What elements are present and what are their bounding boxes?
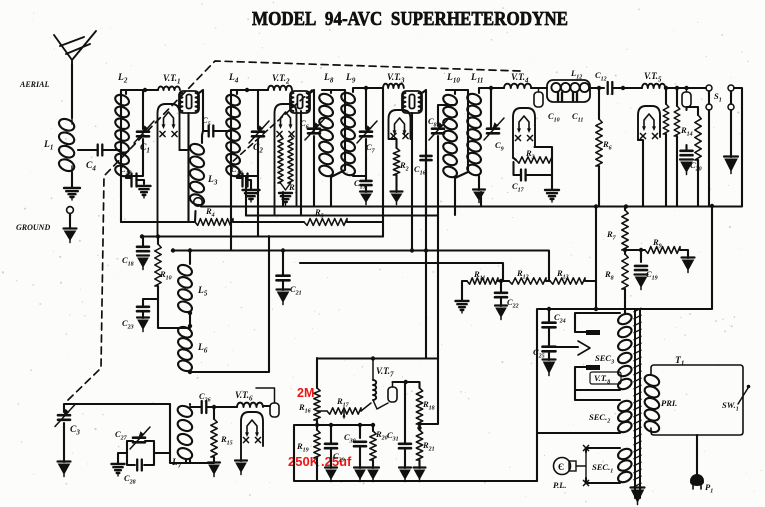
coil L6 — [176, 325, 193, 373]
label V.T.6 — [235, 390, 253, 403]
svg-text:C1: C1 — [140, 143, 150, 155]
svg-text:S1: S1 — [714, 91, 722, 104]
ground R2 — [391, 192, 403, 205]
label L5 — [197, 286, 208, 298]
resistor R8 — [622, 254, 628, 289]
coil L1 — [57, 117, 76, 174]
wire L9 top — [353, 88, 383, 129]
wire VT6 — [263, 405, 270, 407]
ground C14 — [243, 190, 260, 202]
resistor R1 — [278, 136, 293, 190]
resistor R12 — [509, 278, 546, 284]
rectifier VT8 cathode — [578, 341, 590, 355]
wire C30 — [359, 447, 361, 468]
coil L2 — [114, 93, 131, 178]
capacitor C30 — [354, 442, 366, 446]
svg-text:R11: R11 — [473, 269, 485, 282]
label C19 — [646, 269, 658, 282]
resistor R19 — [314, 430, 320, 458]
label C27 — [115, 429, 128, 442]
ground terminal — [67, 207, 74, 214]
label C14 — [231, 164, 243, 177]
capacitor C17 — [521, 170, 526, 181]
label C16 — [414, 164, 426, 177]
variable capacitor C3 — [55, 405, 75, 427]
node audio — [329, 356, 422, 427]
node L9 grid — [364, 86, 368, 90]
capacitor C15 — [361, 181, 372, 185]
wire C13 — [126, 176, 144, 184]
svg-text:L7: L7 — [171, 458, 182, 470]
ground C21 — [277, 290, 290, 305]
label C22 — [507, 297, 519, 310]
svg-text:L10: L10 — [446, 73, 460, 85]
coil L5 — [176, 263, 193, 314]
grid coil VT1 — [158, 87, 180, 90]
capacitor C12 — [608, 82, 613, 94]
svg-text:P.L.: P.L. — [553, 480, 567, 490]
svg-text:C14: C14 — [231, 164, 243, 177]
svg-text:AERIAL: AERIAL — [19, 80, 49, 89]
wire C8 — [438, 105, 455, 126]
wire VT7 grid — [373, 358, 388, 409]
capacitor C16 — [421, 156, 432, 160]
ground under L1 — [64, 188, 80, 200]
bus wire audio top — [317, 357, 438, 359]
switch S1 contacts — [706, 85, 734, 110]
wire antenna to L1 — [71, 64, 73, 118]
svg-text:C17: C17 — [512, 181, 525, 194]
svg-text:L9: L9 — [345, 73, 356, 85]
wire C15 — [353, 139, 366, 192]
variable capacitor C8 — [429, 118, 449, 140]
svg-text:C3: C3 — [70, 425, 80, 437]
wire L5 — [189, 251, 191, 327]
capacitor C31 — [399, 444, 411, 448]
svg-text:R8: R8 — [604, 269, 614, 282]
bus wire D — [300, 263, 503, 281]
svg-text:SEC.1: SEC.1 — [592, 462, 613, 475]
label V.T.1 — [163, 73, 181, 86]
wire L12 to C12 — [531, 87, 604, 89]
tube VT3 top — [402, 91, 422, 113]
label C8 — [428, 116, 437, 129]
label C17 — [512, 181, 525, 194]
label SEC3 — [595, 353, 614, 366]
wire R14 bottom — [697, 160, 699, 206]
wire R3 loop — [514, 147, 553, 190]
capacitor C11 — [573, 93, 577, 102]
tube VT2 top — [290, 91, 310, 113]
ground C25 — [543, 360, 556, 376]
wire R17 — [317, 403, 371, 418]
wire L11 bottom — [478, 176, 480, 190]
svg-text:R16: R16 — [298, 402, 311, 415]
svg-text:C12: C12 — [595, 70, 607, 83]
label L12 — [570, 68, 582, 81]
wire R10 — [158, 236, 180, 328]
svg-text:SEC.2: SEC.2 — [589, 412, 610, 425]
capacitor C29 — [325, 444, 337, 448]
wire C18 — [142, 236, 144, 246]
label R15 — [220, 434, 233, 447]
node C12 out — [621, 86, 689, 90]
label R9 — [652, 237, 662, 250]
label V.T.8 — [590, 372, 621, 386]
node L5 bot — [188, 311, 192, 315]
winding SEC3 — [616, 312, 633, 391]
wire C3 — [64, 404, 170, 462]
wire osc link — [170, 404, 186, 463]
label C11 — [572, 111, 583, 124]
wire VT2 plate down — [301, 90, 314, 215]
label L7 — [171, 458, 182, 470]
wire C24 — [548, 309, 550, 345]
bus wire A R4 R5 — [121, 221, 383, 223]
resistor R16 — [314, 388, 320, 420]
rectifier VT8 plates — [575, 313, 620, 390]
resistor R9 — [645, 247, 680, 254]
label R8 — [604, 269, 614, 282]
variable capacitor C6 — [305, 118, 325, 140]
label R20 — [375, 429, 388, 442]
wire audio bottom — [294, 425, 537, 481]
antenna — [54, 31, 96, 68]
svg-text:L11: L11 — [470, 73, 483, 85]
tube VT6 bell — [241, 412, 263, 461]
svg-text:L12: L12 — [570, 68, 582, 81]
svg-text:R4: R4 — [205, 206, 215, 219]
label V.T.7 — [376, 366, 394, 379]
wire C27 C28 loop — [118, 441, 170, 465]
svg-text:V.T.5: V.T.5 — [644, 71, 662, 84]
wire L8 — [322, 90, 345, 206]
ground C19 — [635, 275, 648, 290]
label C23 — [122, 318, 134, 331]
label L1 — [43, 140, 53, 152]
wire R16 — [316, 358, 318, 430]
svg-text:V.T.4: V.T.4 — [511, 72, 529, 85]
svg-text:R5: R5 — [314, 207, 324, 220]
resistor R3 — [516, 157, 552, 163]
node L6 — [188, 324, 192, 374]
svg-text:V.T.3: V.T.3 — [387, 72, 405, 85]
ground C20 — [680, 160, 693, 175]
wire R14 — [687, 107, 699, 170]
grid coil VT2 — [268, 86, 292, 90]
wire R18 — [418, 424, 420, 430]
resistor R15 — [211, 419, 217, 457]
label L3 — [207, 175, 218, 187]
ground R21 — [414, 468, 426, 482]
label C7 — [366, 142, 376, 155]
svg-text:2M: 2M — [297, 386, 314, 400]
label C29 — [333, 451, 345, 464]
label V.T.4 — [511, 72, 529, 85]
bus wire A2 — [246, 214, 438, 216]
svg-text:C7: C7 — [366, 142, 376, 155]
resistor R2 — [393, 148, 399, 175]
label R1 — [288, 182, 298, 195]
label R5 — [314, 207, 324, 220]
wire R6 — [598, 88, 600, 206]
label R14 — [680, 125, 693, 138]
bus wire E — [195, 207, 742, 223]
wire R21 — [418, 460, 420, 468]
svg-text:PRI.: PRI. — [661, 398, 677, 408]
ground S1 arrow — [724, 157, 738, 174]
ground R15 — [208, 463, 220, 477]
wire L11 top — [479, 88, 504, 128]
capacitor C19 — [635, 266, 647, 270]
coil L9 — [340, 91, 357, 177]
label L4 — [228, 73, 239, 85]
svg-text:C4: C4 — [86, 161, 96, 173]
node stage1 grid — [143, 88, 147, 92]
ground R3 C17 — [545, 190, 559, 202]
wire L10 — [446, 90, 468, 215]
variable capacitor C9 — [484, 118, 504, 140]
wire C31 — [404, 382, 406, 468]
label L8 — [323, 73, 334, 85]
tube VT1 top — [179, 91, 199, 113]
wire R8 down — [624, 289, 626, 313]
label C1 — [140, 143, 150, 155]
svg-text:C11: C11 — [572, 111, 583, 124]
svg-text:T1: T1 — [675, 356, 684, 368]
label L11 — [470, 73, 483, 85]
wire VT1 plate down — [180, 90, 204, 222]
svg-text:Є: Є — [558, 462, 564, 472]
capacitor C14 — [243, 174, 248, 187]
wire VT3 — [383, 88, 426, 251]
svg-text:R19: R19 — [296, 441, 309, 454]
coil L3 — [188, 142, 206, 207]
svg-text:V.T.7: V.T.7 — [376, 366, 394, 379]
wire C22 — [500, 281, 502, 306]
tube VT4 bell — [513, 108, 535, 158]
node R7 R8 — [623, 204, 714, 252]
wire SEC1 — [586, 448, 620, 483]
label C31 — [387, 430, 399, 443]
label R12 — [516, 268, 529, 281]
label L2 — [117, 73, 128, 85]
svg-text:C22: C22 — [507, 297, 519, 310]
wire L3 — [202, 131, 203, 143]
resistor R21 — [416, 430, 422, 460]
resistor R6 — [596, 119, 602, 166]
label C28 — [124, 473, 136, 486]
wire VT7 plate lead — [393, 382, 420, 388]
svg-text:R18: R18 — [422, 399, 435, 412]
svg-text:L4: L4 — [228, 73, 239, 85]
label C5 — [202, 115, 211, 128]
transformer core — [634, 308, 642, 498]
wire VT5 leads — [638, 88, 666, 206]
label GROUND — [16, 223, 50, 232]
wire plug — [696, 435, 698, 479]
label L10 — [446, 73, 460, 85]
node R6 top — [597, 86, 601, 90]
svg-text:L2: L2 — [117, 73, 128, 85]
capacitor C26 — [202, 401, 207, 413]
svg-text:P1: P1 — [705, 482, 713, 495]
ground C15 — [360, 192, 372, 205]
label C21 — [290, 284, 302, 297]
svg-text:C10: C10 — [548, 111, 560, 124]
label C4 — [86, 161, 96, 173]
winding SEC1 — [616, 447, 633, 484]
bus wire C — [173, 251, 549, 282]
resistor R11 — [467, 278, 498, 284]
ground R9 — [682, 258, 695, 273]
svg-text:250K: 250K — [288, 454, 320, 469]
wire R2 — [389, 139, 397, 192]
label C6 — [300, 118, 309, 131]
svg-text:GROUND: GROUND — [16, 223, 50, 232]
capacitor C21 — [277, 276, 290, 281]
resistor R17 — [327, 408, 361, 414]
capacitor C10 — [558, 93, 562, 102]
variable capacitor C2 — [249, 121, 269, 143]
wire L1 to C4 to L2 — [78, 149, 121, 151]
transformer T1 box — [651, 365, 743, 435]
switch SW1 — [738, 385, 750, 404]
wire S1 — [665, 88, 742, 206]
label C18 — [122, 255, 134, 268]
label C2 — [253, 143, 263, 155]
tube VT7 plate — [388, 382, 397, 402]
svg-text:R21: R21 — [422, 440, 435, 453]
grid coil VT3 — [383, 84, 404, 88]
capacitor C22 — [495, 293, 507, 297]
label C20 — [690, 160, 702, 173]
label L9 — [345, 73, 356, 85]
ground VT6 — [235, 461, 247, 475]
svg-text:C2: C2 — [253, 143, 263, 155]
ground symbol — [64, 229, 77, 243]
label V.T.2 — [272, 73, 290, 86]
node L11 grid — [489, 86, 493, 90]
svg-text:R14: R14 — [680, 125, 693, 138]
label C24 — [554, 312, 566, 325]
node R16 R19 — [315, 423, 319, 427]
label S1 — [714, 91, 722, 104]
label R21 — [422, 440, 435, 453]
capacitor C23 — [137, 307, 149, 311]
label C9 — [495, 140, 504, 153]
gang dashed line — [66, 61, 520, 402]
node ps — [547, 307, 598, 311]
svg-text:C31: C31 — [387, 430, 399, 443]
tube VT5 cap — [682, 88, 691, 107]
ground C27 — [112, 464, 125, 476]
label C26 — [199, 391, 211, 404]
svg-text:R13: R13 — [556, 268, 569, 281]
wire L6 bottom — [180, 236, 269, 372]
wire plate supply row — [462, 281, 596, 309]
wire C12 to VT5 — [612, 87, 642, 89]
ground R1 — [279, 193, 292, 205]
svg-text:C28: C28 — [124, 473, 136, 486]
wire R7 — [624, 206, 626, 254]
svg-text:L1: L1 — [43, 140, 53, 152]
svg-text:R7: R7 — [606, 229, 617, 242]
capacitor C28 — [137, 460, 142, 471]
grid coil VT5 — [642, 84, 665, 88]
label V.T.3 — [387, 72, 405, 85]
variable capacitor C7 — [357, 121, 377, 143]
label C10 — [548, 111, 560, 124]
ground C30 — [354, 468, 366, 482]
x marks SEC1 — [583, 445, 588, 485]
wire screen — [676, 88, 678, 206]
label T1 — [675, 356, 684, 368]
svg-text:C8: C8 — [428, 116, 437, 129]
wire ground terminal — [69, 214, 71, 228]
svg-text:C9: C9 — [495, 140, 504, 153]
label R10 — [159, 269, 172, 282]
resistor VT5 screen — [674, 106, 680, 136]
wire C2 — [237, 90, 258, 176]
coil L8 — [318, 92, 335, 178]
wire verticals mid — [246, 136, 596, 424]
wire stage1 top — [121, 90, 158, 222]
tube VT2 bell — [275, 104, 297, 215]
label C13 — [120, 164, 132, 177]
label P1 — [705, 482, 713, 495]
label R4 — [205, 206, 215, 219]
label R19 — [296, 441, 309, 454]
pilot lamp PL — [554, 452, 587, 478]
label R18 — [422, 399, 435, 412]
svg-text:C16: C16 — [414, 164, 426, 177]
label SW1 — [722, 400, 739, 413]
label SEC1 — [592, 462, 613, 475]
svg-text:V.T.1: V.T.1 — [163, 73, 181, 86]
wire R19 bottom — [316, 458, 318, 481]
wire L7 — [186, 404, 214, 463]
label C25 — [533, 347, 545, 360]
coil L10 — [442, 93, 459, 179]
wire stage2 top — [231, 90, 268, 250]
svg-text:L6: L6 — [197, 343, 208, 355]
svg-text:R17: R17 — [336, 396, 350, 409]
svg-text:SEC3: SEC3 — [595, 353, 614, 366]
svg-text:V.T.2: V.T.2 — [272, 73, 290, 86]
capacitor C25 — [543, 347, 556, 352]
winding SEC2 — [616, 399, 633, 434]
ground R20 — [367, 468, 379, 482]
capacitor C18 — [137, 247, 149, 251]
capacitor C5 — [209, 126, 214, 137]
svg-text:R15: R15 — [220, 434, 233, 447]
plug P1 — [690, 474, 704, 489]
svg-text:L5: L5 — [197, 286, 208, 298]
variable capacitor C1 — [134, 121, 154, 143]
grid coil VT6 — [237, 403, 263, 407]
annotation 2M — [297, 386, 314, 400]
wire C21 — [282, 251, 284, 291]
svg-text:C25: C25 — [533, 347, 545, 360]
wire C23 — [143, 299, 158, 318]
wire C26 — [190, 407, 237, 419]
svg-text:V.T.6: V.T.6 — [235, 390, 253, 403]
wire R9 branch — [625, 250, 688, 262]
tube VT6 cap — [256, 388, 279, 417]
wire C6 down — [313, 136, 315, 206]
svg-text:L8: L8 — [323, 73, 334, 85]
